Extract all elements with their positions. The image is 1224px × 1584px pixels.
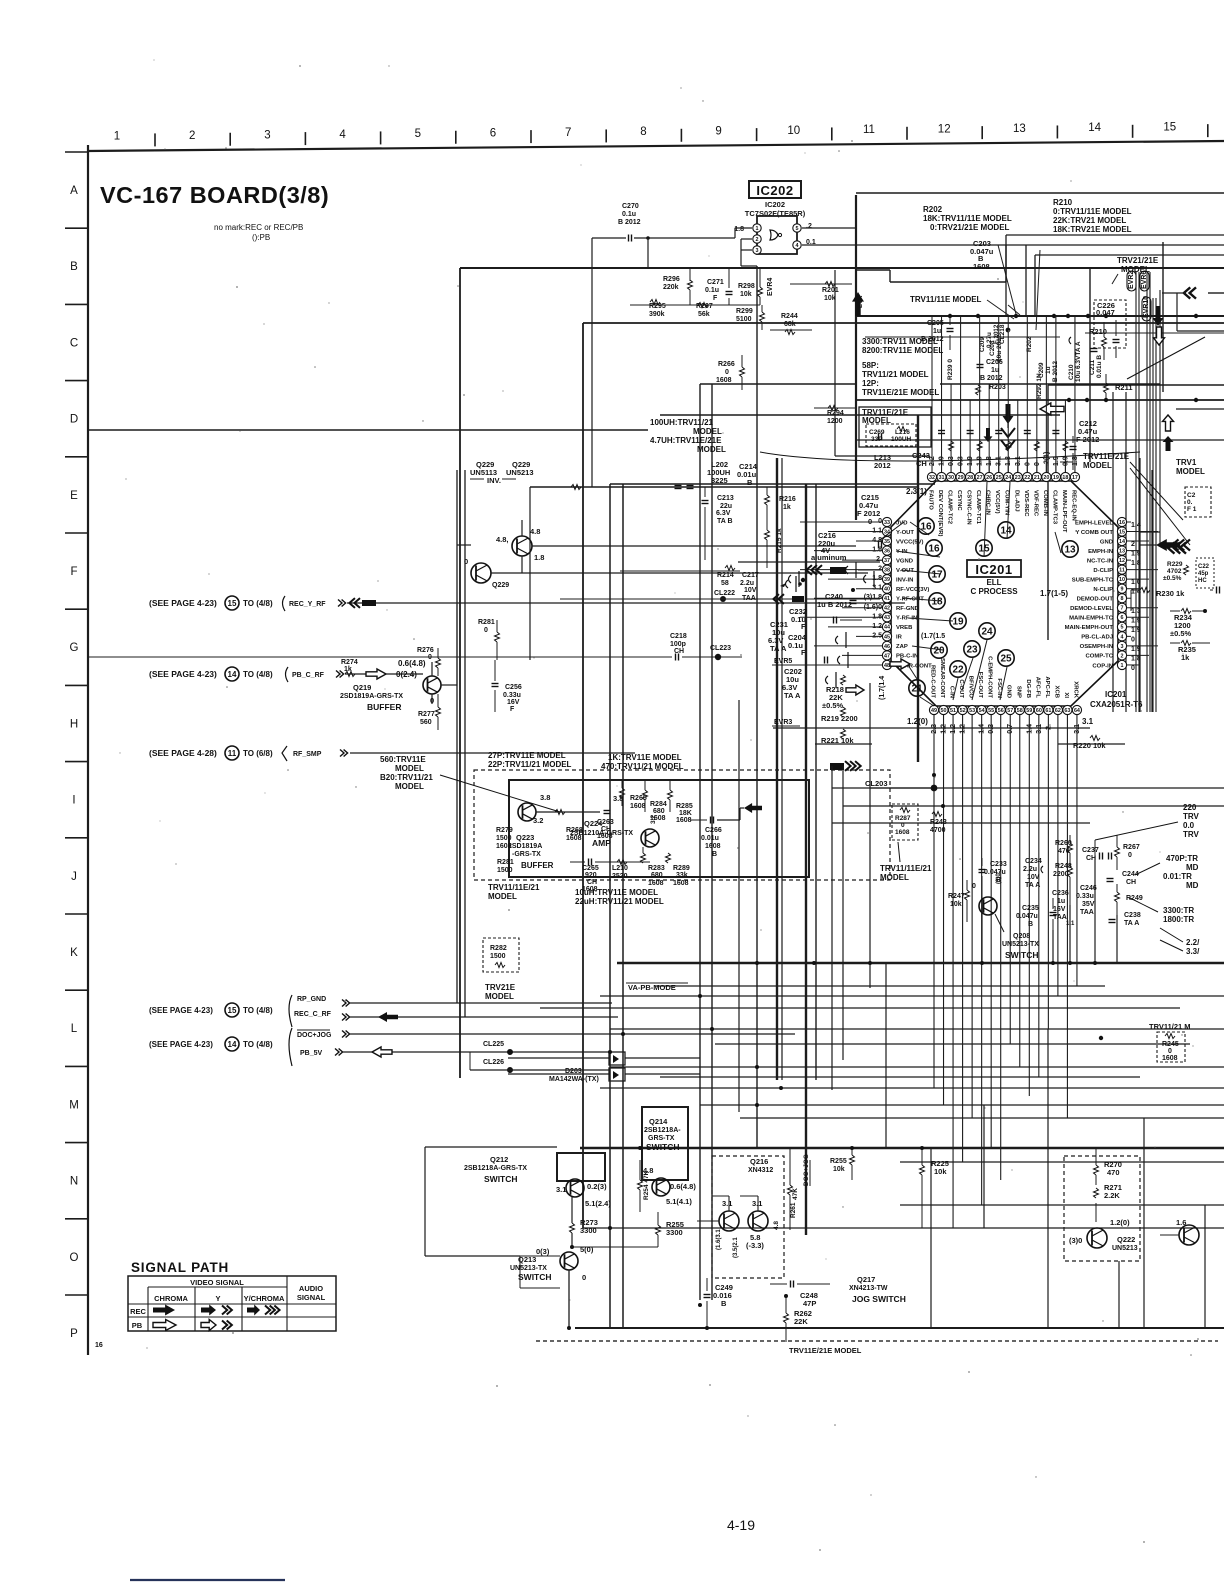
svg-text:GRS-TX: GRS-TX: [648, 1135, 675, 1142]
svg-text:R248: R248: [1055, 863, 1072, 870]
dashed box C2 right edge: [1185, 487, 1211, 517]
svg-text:63: 63: [1064, 708, 1070, 714]
svg-text:MODEL: MODEL: [395, 782, 424, 791]
double chevron right edge row548: [1168, 542, 1186, 553]
svg-text:INV-IN: INV-IN: [896, 577, 913, 583]
svg-text:3.1: 3.1: [722, 1199, 732, 1208]
svg-text:0:TRV11/11E MODEL: 0:TRV11/11E MODEL: [1053, 207, 1132, 216]
svg-text:SIGNAL: SIGNAL: [297, 1293, 326, 1302]
svg-text:BF/VCO: BF/VCO: [968, 676, 974, 699]
svg-text:4: 4: [1121, 634, 1124, 640]
svg-text:10k: 10k: [824, 295, 836, 302]
resistor R254 47k: [638, 1160, 651, 1212]
svg-text:0: 0: [972, 883, 976, 890]
svg-text:0.047u: 0.047u: [984, 869, 1006, 876]
svg-text:22K: 22K: [794, 1317, 808, 1326]
label TRV21E MODEL: [485, 983, 516, 1001]
svg-text:VDF-REC: VDF-REC: [1032, 490, 1038, 517]
svg-text:SWITCH: SWITCH: [646, 1142, 680, 1152]
svg-text:MAIN-EMPH-TC: MAIN-EMPH-TC: [1069, 616, 1114, 622]
svg-text:R287: R287: [895, 815, 911, 822]
svg-text:3.2: 3.2: [533, 816, 543, 825]
svg-text:ELL: ELL: [986, 578, 1001, 587]
svg-text:SUB-EMPH-TC: SUB-EMPH-TC: [1072, 577, 1114, 583]
svg-text:47K: 47K: [792, 1188, 799, 1200]
triple chevron arrow left near C216: [806, 562, 880, 578]
capacitor C237: [1082, 840, 1112, 862]
IC202 boxed label: [749, 181, 801, 198]
component fence above IC201: [835, 270, 1075, 472]
svg-text:aluminum: aluminum: [811, 553, 847, 562]
svg-text:27P:TRV11E MODEL: 27P:TRV11E MODEL: [488, 751, 566, 760]
resistor R267 0: [1115, 835, 1140, 870]
svg-text:5: 5: [415, 128, 421, 140]
svg-text:47: 47: [884, 653, 890, 659]
label TRV11/11E/21 MODEL bottom of box: [488, 883, 540, 901]
transistor Q228: [496, 527, 544, 562]
svg-text:14: 14: [228, 670, 237, 679]
dashed box TRV11/11E/21 outer: [474, 770, 890, 880]
svg-text:(1.7(1.5: (1.7(1.5: [921, 633, 945, 640]
D203 diode pack: [508, 1052, 700, 1083]
capacitor C211 vertical: [1089, 349, 1103, 379]
svg-text:IR: IR: [896, 635, 903, 641]
svg-text:2SB1210A-GRS-TX: 2SB1210A-GRS-TX: [570, 830, 633, 837]
svg-text:M: M: [69, 1099, 79, 1111]
svg-text:R281: R281: [478, 619, 495, 626]
svg-text:45: 45: [884, 634, 890, 640]
svg-text:48: 48: [884, 663, 890, 669]
capacitor C266: [690, 817, 740, 859]
svg-text:0(3): 0(3): [536, 1247, 550, 1256]
svg-text:0.01u: 0.01u: [701, 835, 719, 842]
svg-text:13: 13: [1119, 548, 1125, 554]
svg-text:TRV11/11E MODEL: TRV11/11E MODEL: [910, 295, 982, 304]
wire L202 row: [530, 485, 918, 661]
svg-text:0.: 0.: [1187, 499, 1193, 506]
svg-text:R285: R285: [676, 803, 693, 810]
svg-text:XN4312: XN4312: [748, 1167, 773, 1174]
resistor R296: [663, 268, 693, 305]
svg-text:3.1: 3.1: [752, 1199, 762, 1208]
svg-text:6: 6: [1121, 615, 1124, 621]
capacitor C249: [704, 1278, 733, 1328]
svg-text:R294: R294: [827, 410, 844, 417]
svg-text:2520: 2520: [612, 873, 628, 880]
resistor R214: [717, 566, 735, 588]
label TRV11E/21E MODEL right: [1083, 452, 1190, 545]
svg-text:1500: 1500: [496, 835, 512, 842]
svg-text:53: 53: [969, 708, 975, 714]
label 2.2 3.3: [1160, 928, 1200, 956]
svg-text:C217: C217: [742, 572, 759, 579]
capacitor C204: [788, 633, 848, 668]
svg-text:C2: C2: [1187, 492, 1196, 499]
transistor far right: [1160, 1218, 1199, 1245]
svg-text:R274: R274: [341, 659, 358, 666]
svg-text:1608: 1608: [648, 880, 664, 887]
svg-text:EMPH-IN: EMPH-IN: [1088, 549, 1113, 555]
label TRV1 MODEL far right: [1176, 458, 1205, 476]
svg-text:R247: R247: [948, 893, 965, 900]
dotted box right Q222: [1064, 1148, 1140, 1261]
svg-text:-GRS-TX: -GRS-TX: [512, 851, 541, 858]
svg-text:5: 5: [1121, 625, 1124, 631]
svg-text:MD: MD: [1186, 863, 1199, 872]
svg-text:R276: R276: [417, 647, 434, 654]
svg-text:15: 15: [228, 1006, 237, 1015]
svg-text:R244: R244: [781, 313, 798, 320]
svg-text:1500: 1500: [497, 867, 513, 874]
label L202: [707, 460, 730, 485]
dashed box R245: [1099, 1022, 1191, 1062]
svg-text:470P:TR: 470P:TR: [1166, 854, 1198, 863]
svg-text:C206: C206: [986, 359, 1003, 366]
open left arrow x1052: [1040, 403, 1064, 415]
svg-text:CXA2051R-T6: CXA2051R-T6: [1090, 700, 1143, 709]
svg-text:TO (4/8): TO (4/8): [243, 1040, 273, 1049]
svg-text:11: 11: [1119, 568, 1125, 574]
resistor R273: [570, 1197, 598, 1247]
svg-text:4.7UH:TRV11E/21E: 4.7UH:TRV11E/21E: [650, 436, 722, 445]
svg-text:B: B: [721, 1299, 727, 1308]
svg-text:58P:: 58P:: [862, 361, 879, 370]
capacitor C212: [1060, 419, 1099, 470]
svg-text:14: 14: [228, 1040, 237, 1049]
svg-text:18K:TRV11/11E MODEL: 18K:TRV11/11E MODEL: [923, 214, 1012, 223]
svg-text:1608: 1608: [1162, 1055, 1178, 1062]
svg-text:22: 22: [952, 665, 964, 676]
svg-text:UN5213-TX: UN5213-TX: [1002, 941, 1039, 948]
svg-text:(3)0: (3)0: [1069, 1236, 1082, 1245]
svg-text:(SEE PAGE 4-28): (SEE PAGE 4-28): [149, 748, 217, 758]
svg-text:0: 0: [1168, 1048, 1172, 1055]
capacitor C256: [492, 660, 522, 713]
label TRV11/11E MODEL: [910, 295, 1020, 315]
resistor R211: [1104, 337, 1206, 400]
svg-text:2SD1819A: 2SD1819A: [508, 843, 542, 850]
bottom area bus verticals below IC: [832, 766, 1117, 1090]
svg-text:C: C: [70, 337, 78, 349]
svg-text:R243: R243: [930, 819, 947, 826]
svg-text:SWITCH: SWITCH: [484, 1174, 518, 1184]
svg-text:R261: R261: [790, 1202, 797, 1218]
svg-text:19: 19: [952, 617, 964, 628]
svg-text:TA B: TA B: [717, 518, 733, 525]
resistor R221 10k: [821, 729, 854, 745]
svg-text:10: 10: [787, 125, 800, 137]
svg-text:5: 5: [796, 226, 799, 232]
wire bus verticals left-schematic: [460, 195, 1163, 1328]
see page row REC_Y_RF: [149, 596, 905, 611]
svg-text:R216: R216: [779, 496, 796, 503]
svg-text:0: 0: [725, 369, 729, 376]
svg-text:0.0: 0.0: [1183, 821, 1195, 830]
svg-text:5.1(4.1): 5.1(4.1): [666, 1197, 692, 1206]
svg-text:1K:TRV11E MODEL: 1K:TRV11E MODEL: [608, 753, 682, 762]
arrow into amp box: [744, 803, 762, 813]
svg-text:GND: GND: [1006, 685, 1012, 698]
label 470P 0.01: [1135, 854, 1199, 890]
svg-text:100UH: 100UH: [891, 436, 912, 443]
label VA-PB-MODE: [626, 983, 688, 992]
svg-text:2SD1819A-GRS-TX: 2SD1819A-GRS-TX: [340, 693, 403, 700]
capacitor C263: [597, 811, 614, 841]
svg-text:470:TRV11/21 MODEL: 470:TRV11/21 MODEL: [601, 762, 684, 771]
svg-text:CL226: CL226: [483, 1059, 504, 1066]
svg-text:1500: 1500: [490, 953, 506, 960]
svg-text:INV.: INV.: [487, 476, 501, 485]
svg-text:25: 25: [1000, 654, 1012, 665]
see page row RF_SMP: [149, 746, 635, 761]
svg-text:APC-FL: APC-FL: [1044, 676, 1050, 698]
svg-text:C-EMPH-CONT: C-EMPH-CONT: [987, 656, 993, 698]
svg-text:UN5213: UN5213: [1112, 1245, 1138, 1252]
svg-text:21: 21: [1034, 475, 1040, 481]
label C214: [737, 462, 758, 487]
down arrows right: [1153, 306, 1164, 326]
svg-text:1u: 1u: [1057, 898, 1065, 905]
svg-text:0: 0: [1131, 665, 1135, 672]
resistor R256 10k: [830, 1148, 855, 1180]
capacitor C270: [592, 203, 735, 487]
resistor R295: [630, 300, 687, 319]
svg-text:MAIN-EMPH-OUT: MAIN-EMPH-OUT: [1065, 625, 1114, 631]
svg-text:VCC(5V): VCC(5V): [994, 490, 1000, 514]
svg-text:REC_Y_RF: REC_Y_RF: [289, 601, 326, 608]
transistor Q212: [464, 1153, 611, 1208]
svg-text:20: 20: [1043, 475, 1049, 481]
svg-text:MODEL: MODEL: [1176, 467, 1205, 476]
svg-text:CL223: CL223: [710, 645, 731, 652]
resistor R276: [417, 647, 441, 676]
wire bus right column EVR lines: [1113, 392, 1152, 712]
svg-text:4.8,: 4.8,: [496, 535, 509, 544]
svg-text:56k: 56k: [698, 311, 710, 318]
svg-text:2: 2: [189, 130, 195, 142]
svg-text:26: 26: [986, 475, 992, 481]
svg-text:51: 51: [950, 708, 956, 714]
signal path legend: [128, 1260, 336, 1331]
svg-text:TRV11E/21E MODEL: TRV11E/21E MODEL: [789, 1346, 862, 1355]
wire Q212 left bracket: [425, 1147, 557, 1256]
svg-text:64: 64: [1074, 708, 1080, 714]
svg-text:MD: MD: [1186, 881, 1199, 890]
svg-text:EVR: EVR: [858, 295, 864, 308]
svg-text:B: B: [747, 478, 753, 487]
svg-text:3.3/: 3.3/: [1186, 947, 1200, 956]
down arrow small x988: [984, 428, 993, 442]
label R210 models: [1053, 198, 1132, 234]
capacitor C215: [857, 493, 904, 549]
svg-text:22uH:TRV11/21 MODEL: 22uH:TRV11/21 MODEL: [575, 897, 664, 906]
wire Q213 Q214 joins: [570, 1245, 658, 1249]
wires around Q228 Q229: [457, 470, 868, 1017]
svg-text:MODEL: MODEL: [395, 764, 424, 773]
svg-text:4: 4: [339, 129, 346, 141]
svg-text:5100: 5100: [736, 316, 752, 323]
bus y400: [855, 398, 1224, 409]
svg-text:TO (4/8): TO (4/8): [243, 1006, 273, 1015]
resistor R203: [976, 384, 1006, 395]
svg-text:4700: 4700: [930, 827, 946, 834]
svg-text:5.1(2.4): 5.1(2.4): [585, 1199, 611, 1208]
svg-text:2SB1218A-GRS-TX: 2SB1218A-GRS-TX: [464, 1165, 527, 1172]
svg-text:CH: CH: [587, 879, 597, 886]
svg-text:15: 15: [1119, 529, 1125, 535]
resistor R297: [687, 303, 760, 319]
svg-text:D-CLIP: D-CLIP: [1093, 568, 1113, 574]
svg-text:GND: GND: [1100, 539, 1113, 545]
transistor Q222: [1069, 1218, 1138, 1252]
svg-text:R201: R201: [822, 287, 839, 294]
svg-text:±0.5%: ±0.5%: [1170, 629, 1192, 638]
open right arrow row664: [890, 659, 910, 669]
svg-text:Q223: Q223: [516, 833, 534, 842]
EVR3 label: [772, 719, 800, 726]
svg-text:52: 52: [960, 708, 966, 714]
svg-text:DG-FB: DG-FB: [1025, 679, 1031, 698]
svg-text:C256: C256: [505, 684, 522, 691]
label C203: [970, 239, 994, 271]
svg-text:R215 1k: R215 1k: [776, 528, 783, 553]
svg-text:H: H: [70, 718, 78, 730]
label 27P 22P models: [488, 751, 572, 769]
svg-text:1.6: 1.6: [1176, 1218, 1186, 1227]
svg-text:PB-CL-ADJ: PB-CL-ADJ: [1081, 635, 1113, 641]
svg-text:1k: 1k: [783, 504, 791, 511]
svg-text:TA A: TA A: [1025, 882, 1040, 889]
svg-text:R299: R299: [736, 308, 753, 315]
double chevron right edge row294: [1162, 287, 1224, 331]
capacitor C234: [1023, 858, 1043, 889]
svg-text:MODEL: MODEL: [697, 445, 726, 454]
svg-text:R283: R283: [648, 865, 665, 872]
resistor R249: [1115, 884, 1143, 915]
EVR vertical wire pairs: [1136, 272, 1160, 712]
svg-text:B 2012: B 2012: [980, 375, 1003, 382]
svg-text:0: 0: [582, 1273, 586, 1282]
svg-text:P: P: [70, 1328, 78, 1340]
arrow right triple row766: [830, 761, 861, 771]
svg-text:ZAP: ZAP: [896, 644, 908, 650]
svg-text:1u B 2012: 1u B 2012: [817, 600, 852, 609]
svg-text:R220 10k: R220 10k: [1073, 741, 1106, 750]
svg-text:4702: 4702: [1167, 568, 1182, 575]
svg-text:24: 24: [1005, 475, 1011, 481]
svg-text:22: 22: [1024, 475, 1030, 481]
svg-text:(SEE PAGE 4-23): (SEE PAGE 4-23): [149, 1040, 213, 1049]
svg-text:PB_5V: PB_5V: [300, 1050, 323, 1057]
svg-text:Q222: Q222: [1117, 1235, 1135, 1244]
svg-text:50: 50: [941, 708, 947, 714]
svg-text:14: 14: [1088, 122, 1101, 134]
IC201 bottom pins: [929, 656, 1081, 734]
capacitor C265: [570, 859, 615, 894]
svg-text:3.8: 3.8: [613, 794, 623, 803]
svg-text:1608: 1608: [895, 829, 910, 836]
svg-text:XI: XI: [1063, 692, 1069, 698]
svg-text:16: 16: [1119, 520, 1125, 526]
svg-text:EVR5: EVR5: [774, 658, 792, 665]
svg-text:PB-C-IN: PB-C-IN: [896, 654, 918, 660]
svg-text:REC: REC: [130, 1307, 146, 1316]
svg-text:0.2(3): 0.2(3): [587, 1182, 607, 1191]
svg-text:19: 19: [1053, 475, 1059, 481]
resistor R266: [716, 355, 745, 390]
svg-text:0.33u: 0.33u: [503, 692, 521, 699]
svg-text:TRV: TRV: [1183, 812, 1200, 821]
svg-text:1k: 1k: [1181, 653, 1190, 662]
svg-text:TRV1: TRV1: [1176, 458, 1197, 467]
svg-text:1u: 1u: [991, 367, 999, 374]
svg-text:35: 35: [884, 539, 890, 545]
svg-text:CLAMP-TC1: CLAMP-TC1: [975, 490, 981, 525]
svg-text:.2: .2: [806, 223, 812, 230]
svg-text:F 2012: F 2012: [1076, 435, 1099, 444]
svg-text:TO (4/8): TO (4/8): [243, 670, 273, 679]
resistor R299: [736, 305, 765, 330]
svg-text:Q212: Q212: [490, 1155, 508, 1164]
svg-text:F: F: [713, 295, 718, 302]
svg-text:29: 29: [958, 475, 964, 481]
filled left arrow row545: [1140, 539, 1190, 551]
svg-text:MA142WA-(TX): MA142WA-(TX): [549, 1076, 599, 1083]
label Q217 JOG SWITCH: [849, 1275, 906, 1304]
svg-text:14: 14: [1119, 539, 1125, 545]
capacitor C205: [921, 316, 954, 350]
svg-text:R221 10k: R221 10k: [821, 736, 854, 745]
dashed box C269 L216: [866, 424, 916, 446]
svg-text:EMPH-LEVEL: EMPH-LEVEL: [1075, 520, 1113, 526]
svg-text:3: 3: [264, 129, 270, 141]
svg-text:REC-EQ-IN: REC-EQ-IN: [1070, 490, 1076, 521]
label TRV11/11E/21 MODEL below: [880, 842, 932, 882]
svg-text:CL222: CL222: [714, 590, 735, 597]
svg-text:CSYNC-C-IN: CSYNC-C-IN: [966, 490, 972, 525]
svg-text:CL225: CL225: [483, 1041, 504, 1048]
svg-text:TRV21E: TRV21E: [485, 983, 516, 992]
transistor Q219: [340, 659, 441, 712]
IC201 top pins: [927, 452, 1079, 537]
svg-text:Q214: Q214: [649, 1117, 668, 1126]
resistor R289: [666, 780, 690, 887]
svg-text:10k: 10k: [833, 1166, 845, 1173]
svg-text:R249: R249: [1126, 895, 1143, 902]
down arrow filled x1008: [1003, 404, 1014, 424]
transistor Q208: [972, 873, 1039, 960]
svg-text:0: 0: [484, 627, 488, 634]
svg-text:42: 42: [884, 606, 890, 612]
svg-text:Q216: Q216: [750, 1157, 768, 1166]
svg-text:11: 11: [228, 749, 237, 758]
svg-text:31: 31: [939, 475, 945, 481]
transistor Q213: [510, 1245, 594, 1328]
svg-text:1608: 1608: [716, 377, 732, 384]
svg-text:33: 33: [884, 520, 890, 526]
svg-text:MAIN-LPF-OUT: MAIN-LPF-OUT: [1061, 490, 1067, 533]
svg-text:27: 27: [977, 475, 983, 481]
capacitor C271: [705, 268, 733, 305]
svg-text:EVR4: EVR4: [767, 278, 774, 296]
svg-text:1: 1: [756, 226, 759, 232]
svg-text:3.2: 3.2: [650, 815, 657, 824]
capacitor C240: [817, 588, 857, 609]
svg-text:8200:TRV11E MODEL: 8200:TRV11E MODEL: [862, 346, 943, 355]
svg-text:FAUTO: FAUTO: [928, 490, 934, 510]
svg-text:RF-GND: RF-GND: [896, 606, 919, 612]
capacitor C202 EVR5: [772, 658, 864, 700]
